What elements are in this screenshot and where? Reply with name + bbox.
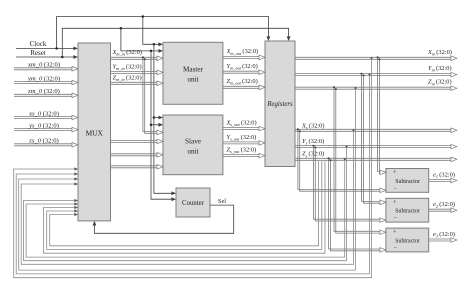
wire feedback Y_m to MUX — [16, 74, 370, 274]
bus output X_m (32:0) — [295, 49, 457, 61]
svg-text:xs_0 (32:0): xs_0 (32:0) — [28, 110, 59, 117]
svg-text:Registers: Registers — [266, 101, 293, 108]
wire feedback Z_m to MUX — [19, 87, 357, 270]
bus Z_s tap to Subtractor3 minus — [328, 157, 386, 252]
wire Clock input — [16, 40, 78, 50]
svg-text:Ys (32:0): Ys (32:0) — [302, 138, 324, 146]
svg-text:Ym (32:0): Ym (32:0) — [428, 65, 452, 73]
block Subtractor U5 — [386, 228, 429, 252]
bus Y_s_out (32:0) Slave to Registers — [223, 134, 265, 145]
svg-text:Slave: Slave — [185, 138, 201, 146]
wire reset to Master — [120, 27, 163, 53]
svg-text:Clock: Clock — [30, 40, 47, 48]
svg-text:Counter: Counter — [182, 200, 205, 207]
bus MUX to Slave — [111, 139, 164, 144]
block Master unit U1 — [163, 42, 223, 104]
bus input xm_0 (32:0) — [14, 62, 78, 72]
wire feedback Y_s to MUX — [24, 146, 348, 261]
svg-text:zs_0 (32:0): zs_0 (32:0) — [28, 138, 59, 145]
wire reset top rail — [61, 28, 290, 58]
bus input zs_0 (32:0) — [14, 138, 78, 148]
wire Sel Counter to MUX — [93, 198, 234, 233]
wire feedback X_s to MUX — [21, 129, 354, 264]
bus Z_m_out (32:0) Master to Registers — [223, 78, 265, 90]
svg-text:Subtractor: Subtractor — [395, 238, 420, 244]
svg-text:Subtractor: Subtractor — [395, 179, 420, 185]
bus MUX to Slave — [111, 165, 164, 170]
svg-text:Xs_out (32:0): Xs_out (32:0) — [226, 120, 257, 128]
bus output X_s (32:0) — [295, 122, 457, 132]
svg-text:Sel: Sel — [218, 198, 226, 205]
bus Y_m_out (32:0) Master to Registers — [223, 63, 265, 75]
bus output Y_s (32:0) — [295, 138, 457, 149]
wire clock to Master — [142, 15, 163, 46]
bus input zm_0 (32:0) — [14, 88, 78, 98]
bus input ym_0 (32:0) — [14, 75, 78, 84]
wire reset to Slave and Counter — [150, 50, 176, 201]
svg-text:MUX: MUX — [86, 129, 104, 138]
block Registers — [265, 41, 295, 167]
block Slave unit U2 — [163, 115, 223, 175]
wire clock to Slave and Counter — [153, 43, 176, 195]
svg-text:unit: unit — [187, 76, 198, 84]
bus output e2 (32:0) — [429, 201, 457, 212]
svg-text:Xm_in (32:0): Xm_in (32:0) — [112, 49, 142, 57]
bus input ys_0 (32:0) — [14, 122, 78, 131]
svg-text:Master: Master — [183, 66, 204, 74]
svg-text:zm_0 (32:0): zm_0 (32:0) — [27, 88, 60, 95]
wire feedback e1 to MUX — [44, 161, 326, 253]
bus MUX to Slave — [111, 153, 164, 158]
svg-text:Xm (32:0): Xm (32:0) — [427, 49, 452, 57]
svg-text:Xm_out (32:0): Xm_out (32:0) — [226, 48, 259, 56]
svg-text:ys_0 (32:0): ys_0 (32:0) — [28, 122, 59, 129]
bus X_s_out (32:0) Slave to Registers — [223, 120, 265, 131]
bus Y_s tap to Subtractor2 minus — [313, 145, 386, 223]
svg-text:Zs (32:0): Zs (32:0) — [302, 151, 324, 159]
wire feedback e2 to MUX — [47, 161, 322, 249]
svg-text:Zm (32:0): Zm (32:0) — [428, 79, 452, 87]
bus Y_m tap to Subtractor2 plus — [361, 73, 386, 205]
bus Z_s_out (32:0) Slave to Registers — [223, 147, 265, 158]
svg-text:unit: unit — [187, 148, 198, 156]
svg-text:Reset: Reset — [30, 49, 46, 57]
bus X_m_out (32:0) Master to Registers — [223, 48, 265, 60]
bus X_m tap to Subtractor1 plus — [377, 56, 386, 174]
bus Z_m_in (32:0) MUX to Master — [111, 74, 164, 85]
bus X_m_in tap to Slave — [142, 56, 163, 134]
bus output Z_s (32:0) — [295, 151, 457, 162]
block Counter — [176, 188, 210, 217]
bus output Y_m (32:0) — [295, 65, 457, 77]
bus output Z_m (32:0) — [295, 79, 457, 91]
wire feedback e3 to MUX — [50, 161, 319, 246]
svg-text:Subtractor: Subtractor — [395, 209, 420, 215]
bus Z_m tap to Subtractor3 plus — [333, 86, 386, 234]
bus output e1 (32:0) — [429, 171, 457, 182]
wire Reset input — [16, 49, 78, 59]
wire feedback Z_s to MUX — [26, 158, 346, 257]
block Subtractor U4 — [386, 198, 429, 222]
svg-text:xm_0 (32:0): xm_0 (32:0) — [27, 62, 60, 69]
bus X_m_in (32:0) MUX to Master — [111, 49, 164, 61]
block Subtractor U3 — [386, 169, 429, 193]
bus Y_m_in (32:0) MUX to Master — [111, 63, 164, 74]
block MUX — [78, 43, 111, 221]
bus input xs_0 (32:0) — [14, 110, 78, 120]
bus output e3 (32:0) — [429, 231, 457, 242]
wire clock top rail — [55, 17, 270, 50]
svg-text:ym_0 (32:0): ym_0 (32:0) — [27, 75, 60, 82]
wire feedback X_m to MUX — [14, 57, 373, 277]
svg-text:Xs (32:0): Xs (32:0) — [301, 122, 325, 130]
bus X_s tap to Subtractor1 minus — [297, 128, 386, 192]
